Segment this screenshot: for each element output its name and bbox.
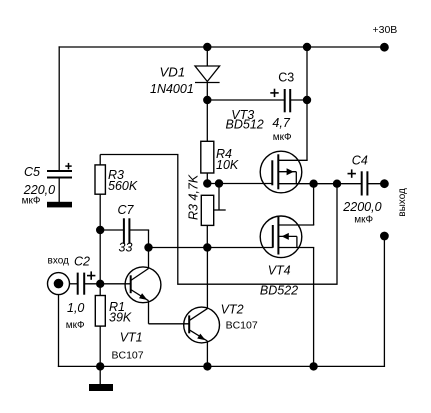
svg-text:10K: 10K [216,158,239,172]
resistor R1 [95,296,105,327]
svg-text:1N4001: 1N4001 [150,82,194,96]
node output terminal minus [380,232,389,241]
svg-text:мкФ: мкФ [273,132,292,143]
wire R4 bottom [206,173,208,184]
wire R1 bottom [99,326,101,366]
resistor R4 [201,141,214,173]
wire VT2 collector up to gate node [206,248,208,309]
svg-text:33: 33 [119,241,133,255]
svg-text:мкФ: мкФ [22,196,41,207]
svg-text:+30В: +30В [373,24,398,36]
node output terminal plus [380,179,389,188]
svg-text:вход: вход [48,256,70,267]
wire VT4 source down to bottom rail [313,248,315,367]
wire VT4 drain up to output [313,184,315,225]
capacitor C2 [78,273,85,295]
trimmer R3 4,7K [201,184,225,226]
svg-text:1,0: 1,0 [67,301,84,315]
transistor VT4 [260,216,314,258]
node ground rail [96,362,104,370]
wire C2 to base node [84,283,100,285]
wire connector sleeve to bottom rail [58,295,60,367]
node trimmer tap [215,179,223,187]
wire R4 top [206,100,208,141]
wire R3 560K bottom [99,194,101,230]
node VT1 base [96,280,104,288]
node VD1 cathode [203,96,211,104]
input connector [48,273,70,295]
node output VT4 drain [309,180,317,188]
wire rail to VD1 anode [206,47,208,66]
svg-text:BD522: BD522 [260,284,298,298]
plus sign C5 [65,163,71,169]
wire ground stub [99,366,101,384]
wire output line VT3 source to C4 [278,183,361,185]
capacitor C7 [100,218,149,247]
svg-text:C5: C5 [24,165,40,179]
node rail VD1 [203,43,211,51]
svg-text:VD1: VD1 [160,65,186,80]
ground (main) [89,384,113,391]
wire connector to C2 [70,283,78,285]
svg-text:560K: 560K [108,179,138,193]
svg-text:BD512: BD512 [226,117,264,131]
svg-text:BC107: BC107 [226,320,258,332]
node VT4 gate [203,243,211,251]
svg-text:C2: C2 [74,255,90,269]
svg-text:4,7: 4,7 [272,116,290,130]
wire C3 right to column [290,99,307,101]
wire bottom rail [58,365,385,367]
wire VT1 emitter to VT2 base [149,323,190,325]
resistor R3 560K [95,165,105,194]
svg-text:VT4: VT4 [268,264,291,278]
wire left rail down to C5 [58,46,60,171]
diode VD1 [195,66,220,100]
svg-text:2200,0: 2200,0 [342,200,381,214]
wire R3 4,7K bottom [206,225,208,247]
wire VT1 collector node to VT4 gate [149,247,273,249]
node VT4 source rail [309,362,317,370]
wire C4 to output terminal [367,183,384,185]
node R4 bottom [203,179,211,187]
node VT1 collector [144,243,152,251]
transistor VT2 [184,307,220,366]
node feedback output [333,180,341,188]
svg-text:мкФ: мкФ [66,320,85,331]
wire output minus terminal down [383,236,385,367]
wire C5 to ground [58,178,60,203]
ground (C5) [47,202,72,208]
svg-text:C7: C7 [118,203,135,217]
plus sign C2 [87,271,95,279]
svg-text:выход: выход [397,188,408,217]
capacitor C3 [285,89,291,112]
transistor VT3 [260,151,307,193]
wire top +30V rail [59,46,385,48]
svg-text:BC107: BC107 [112,350,144,362]
node rail right column [303,43,311,51]
svg-text:C3: C3 [278,70,294,84]
svg-text:VT1: VT1 [120,331,143,345]
node VT2 emitter rail [203,362,211,370]
wire R3 560K top stub [99,155,101,165]
transistor VT1 [125,248,161,324]
wire VD1 cathode node to C3 [207,99,284,101]
svg-text:мкФ: мкФ [354,215,373,226]
svg-text:39K: 39K [109,310,132,324]
plus sign C4 [348,169,356,177]
wire right column rail to VT3 drain [306,47,308,160]
svg-text:VT2: VT2 [221,303,244,317]
capacitor C5 [47,171,72,178]
plus sign C3 [270,89,278,97]
wire feedback loop R3 560K to output [100,155,337,285]
node +30V terminal [380,43,389,52]
wire base node to VT1 base [100,283,131,285]
svg-text:C4: C4 [352,154,368,168]
svg-text:R3 4,7K: R3 4,7K [187,174,201,220]
capacitor C4 [362,171,368,195]
node C3 right [303,96,311,104]
wire C7 node down to C2 node [99,230,101,284]
wire gate line to VT3 [207,183,272,185]
wire R1 top [99,284,101,296]
node C7 left [96,226,104,234]
